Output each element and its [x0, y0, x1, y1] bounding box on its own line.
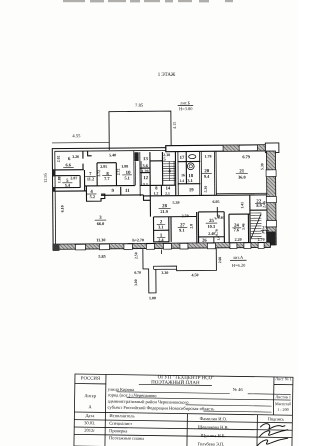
svg-text:14: 14 — [166, 185, 171, 190]
svg-text:3.00: 3.00 — [134, 279, 138, 286]
clipped header text at top edge — [63, 0, 233, 2]
svg-text:2.87: 2.87 — [70, 175, 77, 180]
svg-text:9.1: 9.1 — [179, 228, 184, 233]
svg-text:5.30: 5.30 — [260, 163, 264, 170]
svg-text:9.4: 9.4 — [204, 174, 210, 179]
svg-text:1.00: 1.00 — [149, 295, 156, 300]
svg-text:Литер: Литер — [84, 393, 96, 398]
shaft 25/24 — [228, 214, 230, 242]
dark pier near annex — [134, 152, 138, 161]
room13/12 right wall — [149, 152, 152, 216]
svg-text:3.26: 3.26 — [72, 154, 79, 159]
room26 divider — [213, 237, 215, 243]
svg-text:6.05: 6.05 — [213, 199, 220, 204]
svg-text:3.1: 3.1 — [187, 178, 192, 183]
svg-text:2.85: 2.85 — [100, 164, 107, 169]
wall rooms 8-10 bottom — [101, 185, 135, 187]
svg-text:2.8: 2.8 — [190, 224, 194, 229]
room15 bottom — [150, 160, 162, 162]
stair hatch main — [163, 161, 175, 181]
room13 left wall — [139, 152, 141, 196]
svg-text:2012г: 2012г — [84, 428, 95, 433]
svg-text:5.2: 5.2 — [90, 194, 95, 199]
svg-text:Дата: Дата — [85, 413, 94, 418]
left outer wall — [51, 149, 54, 251]
stair right wall — [174, 152, 176, 196]
svg-text:Листов 1: Листов 1 — [275, 394, 291, 399]
gate tick below wall — [160, 249, 162, 253]
svg-text:2.02: 2.02 — [57, 155, 61, 162]
svg-text:4.55: 4.55 — [72, 133, 81, 138]
wall 9/11 divider — [120, 187, 122, 195]
svg-text:2.1: 2.1 — [165, 192, 170, 196]
svg-text:17: 17 — [180, 156, 185, 161]
right outer wall band — [265, 151, 276, 245]
room19/20 wall — [198, 152, 200, 196]
windows bottom — [75, 244, 85, 250]
svg-text:26: 26 — [202, 238, 207, 243]
svg-text:2.70: 2.70 — [258, 237, 265, 242]
wall room5 bottom — [55, 187, 80, 189]
wall room3 top-left — [55, 190, 86, 192]
wall room5 right — [79, 176, 81, 188]
svg-text:город (пос.) г.Черепаново: город (пос.) г.Черепаново — [108, 392, 158, 398]
signatures — [257, 423, 288, 446]
svg-text:№ 46: № 46 — [233, 387, 244, 392]
svg-text:7.85: 7.85 — [135, 103, 144, 108]
wc block: room17 bottom — [177, 160, 200, 162]
rooms 8/14 box bottom band — [150, 184, 175, 186]
room12 top — [140, 172, 150, 174]
wall room6 bottom — [55, 169, 84, 171]
wall rooms 7-8 bottom — [85, 185, 101, 187]
stair hall left wall — [161, 152, 163, 185]
svg-text:30.03.: 30.03. — [84, 420, 95, 425]
wall room8 top — [97, 162, 116, 164]
svg-text:13: 13 — [143, 157, 148, 162]
room27 right wall — [196, 212, 198, 243]
corridor bottom wall left part — [153, 215, 196, 217]
svg-text:Фамилия И.О.: Фамилия И.О. — [200, 416, 227, 421]
svg-text:Масштаб: Масштаб — [275, 401, 291, 406]
svg-text:2.50: 2.50 — [134, 252, 138, 259]
svg-text:1.4: 1.4 — [180, 179, 185, 183]
svg-text:11.2: 11.2 — [87, 176, 94, 181]
stair hatch room23 — [251, 213, 262, 239]
room10 right wall — [133, 151, 135, 186]
svg-text:h=2.70: h=2.70 — [132, 237, 144, 242]
svg-text:Щукина Н.Б.: Щукина Н.Б. — [201, 433, 226, 438]
room4 box — [86, 186, 104, 201]
dim line 4.55 — [52, 141, 109, 143]
wall stub near 0.40 — [216, 207, 218, 216]
svg-text:лит.А: лит.А — [233, 255, 244, 260]
svg-text:Подпись: Подпись — [268, 416, 285, 421]
svg-text:5.30: 5.30 — [204, 186, 208, 193]
svg-text:Поэтажные планы: Поэтажные планы — [109, 435, 144, 441]
svg-text:6.6: 6.6 — [65, 162, 71, 167]
svg-text:3.1: 3.1 — [143, 182, 148, 187]
svg-text:Лист № 1: Лист № 1 — [275, 376, 292, 381]
svg-text:2.50: 2.50 — [182, 213, 189, 218]
svg-text:11: 11 — [125, 189, 130, 194]
svg-text:7.7: 7.7 — [104, 176, 110, 181]
svg-text:2.20: 2.20 — [235, 237, 242, 242]
svg-text:Н=3.80: Н=3.80 — [179, 106, 193, 111]
svg-text:19: 19 — [189, 188, 194, 193]
bottom outer wall band — [53, 242, 271, 251]
svg-text:3.1: 3.1 — [158, 224, 163, 229]
svg-text:2.72: 2.72 — [117, 169, 121, 176]
svg-text:12: 12 — [143, 176, 148, 181]
annex lit.B outline — [109, 111, 171, 150]
svg-text:5.39: 5.39 — [173, 200, 180, 205]
svg-text:Голубева Э.П.: Голубева Э.П. — [198, 441, 225, 446]
wc block bottom / room19 top — [178, 183, 201, 185]
svg-text:Специалист: Специалист — [109, 421, 132, 426]
svg-text:3.46: 3.46 — [242, 223, 246, 230]
svg-text:66.0: 66.0 — [97, 221, 105, 226]
svg-text:11.30: 11.30 — [96, 237, 105, 242]
svg-text:2.4: 2.4 — [158, 237, 164, 242]
svg-text:Шевлякова Н.В.: Шевлякова Н.В. — [198, 424, 229, 429]
svg-text:улица Кирова: улица Кирова — [108, 387, 134, 392]
svg-text:1.2: 1.2 — [154, 192, 159, 196]
rooms 2/1 box — [153, 217, 169, 242]
svg-text:12.95: 12.95 — [43, 172, 48, 183]
TITLE BLOCK — [74, 373, 293, 446]
svg-text:3.30: 3.30 — [161, 270, 168, 275]
wc oval fixture room17 — [189, 155, 196, 159]
wall room8 right / room10 left — [115, 163, 117, 186]
svg-text:Проверка: Проверка — [109, 428, 127, 433]
svg-text:15: 15 — [161, 157, 166, 162]
svg-text:4.50: 4.50 — [191, 272, 198, 277]
wall room7 left — [83, 170, 85, 191]
INTERIOR WALLS — [55, 149, 268, 244]
ROOM LABELS AND DIMENSIONS — [57, 151, 270, 301]
corridor jog at room3 — [143, 195, 150, 200]
room25 right wall — [223, 212, 225, 243]
room22 bottom wall — [250, 209, 267, 211]
svg-text:РОССИЯ: РОССИЯ — [81, 376, 101, 381]
top wall left section — [52, 148, 167, 149]
svg-text:лит.Б: лит.Б — [180, 100, 190, 105]
svg-text:1.78: 1.78 — [204, 154, 211, 159]
svg-text:4.15: 4.15 — [172, 122, 177, 129]
svg-text:2.46: 2.46 — [262, 201, 266, 208]
room13 bottom — [140, 167, 150, 169]
svg-text:0.70: 0.70 — [134, 271, 141, 275]
svg-text:16: 16 — [181, 173, 185, 177]
room25 bottom / 26 top — [199, 236, 225, 238]
wc block left wall — [177, 152, 179, 196]
svg-text:10.3: 10.3 — [207, 224, 215, 229]
svg-text:5.40: 5.40 — [109, 152, 116, 157]
corridor top wall (room21 bottom) — [143, 195, 266, 196]
wall room7/4 left upper — [88, 151, 92, 156]
svg-text:1 ЭТАЖ: 1 ЭТАЖ — [158, 73, 176, 78]
svg-text:1.41: 1.41 — [240, 202, 244, 209]
svg-text:1.88: 1.88 — [58, 176, 62, 183]
room20/21 wall — [213, 152, 215, 196]
svg-text:2.60: 2.60 — [218, 257, 222, 264]
porch step rect 3.30 — [154, 266, 177, 269]
svg-text:1.88: 1.88 — [121, 164, 128, 169]
svg-text:2.72: 2.72 — [97, 170, 101, 177]
svg-text:6.79: 6.79 — [242, 154, 250, 159]
top wall right section band — [166, 143, 279, 154]
wall room8 left — [96, 163, 98, 186]
svg-text:5.4: 5.4 — [65, 183, 71, 188]
svg-text:0.70: 0.70 — [215, 229, 219, 236]
wc inner vertical — [185, 152, 187, 184]
room24 top wall — [229, 213, 250, 215]
room25 top wall — [198, 211, 224, 213]
svg-text:1.39: 1.39 — [141, 168, 148, 173]
svg-text:21.9: 21.9 — [160, 209, 168, 214]
shaft right of rooms 2/1 — [170, 217, 172, 242]
svg-text:0.40: 0.40 — [218, 216, 225, 220]
corridor 9/11 bottom wall — [101, 194, 143, 196]
room12 bottom — [140, 184, 150, 186]
wc circle fixture room18 — [187, 163, 194, 170]
wall room6 right — [82, 151, 84, 170]
svg-text:1 : 200: 1 : 200 — [277, 407, 288, 412]
svg-text:36.0: 36.0 — [238, 175, 246, 180]
svg-text:6.10: 6.10 — [60, 205, 65, 212]
left wall junction blocks — [52, 169, 55, 176]
porch outline bottom — [143, 249, 156, 293]
svg-text:5.85: 5.85 — [98, 254, 105, 259]
svg-text:5.1: 5.1 — [124, 175, 129, 180]
wall room5 top — [55, 175, 80, 177]
porch long edge 4.50 — [176, 249, 216, 271]
svg-text:Исполнитель: Исполнитель — [109, 413, 134, 418]
svg-text:Н=6.20: Н=6.20 — [232, 263, 246, 268]
room24 right wall — [247, 214, 249, 242]
